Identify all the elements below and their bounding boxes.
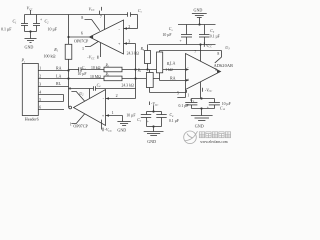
capacitor C6 0.1uF (top right right): [199, 25, 220, 45]
node Vcc port right: [204, 42, 212, 48]
wire RL feedback line: [69, 88, 94, 90]
pin 8 offset null U2: [69, 86, 84, 101]
pin 5 wire: [38, 95, 63, 102]
junction dot tap LA: [134, 77, 136, 79]
op-amp U2 OP07CP (left-pointing, bottom): [74, 90, 106, 126]
wire bottom cap row top: [192, 98, 215, 100]
pin 4 stem U1: [87, 43, 100, 61]
svg-text:GND: GND: [25, 45, 34, 50]
svg-text:LA: LA: [170, 60, 175, 65]
junction dot bus LA: [67, 77, 69, 79]
svg-text:OP07CP: OP07CP: [74, 39, 89, 44]
svg-text:10 µF: 10 µF: [126, 113, 135, 117]
pin 1 wire RA: [38, 66, 68, 71]
junction dot RG top leg: [146, 68, 148, 70]
wire feedback drop to pin2: [137, 15, 139, 29]
svg-text:10 µF: 10 µF: [163, 33, 172, 37]
svg-text:24.3 kΩ: 24.3 kΩ: [127, 52, 139, 56]
resistor R4 24.3k (upper RG, vertical): [127, 45, 151, 70]
wire pin2 input U1: [124, 24, 138, 30]
pin 8 offset null U1: [81, 15, 100, 31]
wire bus lower: [68, 59, 70, 107]
capacitor C10 10uF (below AD620 right): [207, 99, 231, 112]
svg-text:24.3 kΩ: 24.3 kΩ: [122, 84, 134, 88]
wire pin8 hook AD620: [160, 51, 222, 63]
capacitor C5 10uF (top right left): [163, 25, 193, 45]
svg-text:0.1 µF: 0.1 µF: [169, 119, 179, 123]
svg-text:OP07CP: OP07CP: [73, 124, 88, 129]
svg-text:8: 8: [69, 86, 71, 91]
svg-text:0.1 µF: 0.1 µF: [179, 104, 189, 108]
resistor R5 24.3k (lower RG, vertical): [122, 68, 154, 92]
svg-text:7: 7: [194, 50, 196, 54]
svg-text:1 kΩ: 1 kΩ: [165, 68, 173, 72]
watermark logo: [184, 131, 198, 144]
junction dot: [152, 125, 154, 127]
resistor R2 10k (horizontal): [91, 64, 122, 72]
svg-text:+: +: [40, 18, 42, 22]
svg-text:R2: R2: [105, 64, 110, 69]
wire mid cap row bottom: [147, 126, 162, 128]
svg-text:8: 8: [81, 15, 83, 20]
wire RG bottom to pin1 AD620: [150, 92, 187, 94]
wire LA jog to AD620 plus: [159, 79, 161, 81]
arrowhead plus input AD620: [186, 79, 190, 81]
capacitor C2: [33, 15, 58, 32]
junction dot tap RA: [134, 68, 136, 70]
svg-text:1: 1: [82, 46, 84, 51]
svg-text:RA: RA: [170, 75, 176, 80]
junction dot: [29, 30, 31, 32]
pin 6 output U1: [81, 31, 93, 39]
svg-text:GND: GND: [147, 139, 156, 144]
svg-text:5: 5: [177, 91, 179, 95]
pin 6 output AD620: [215, 68, 220, 73]
ground GND3 (top right, above caps): [192, 8, 207, 25]
capacitor C9 0.1uF (below AD620 left): [179, 98, 198, 108]
wire Vcc stem: [30, 10, 32, 15]
svg-text:RL: RL: [56, 81, 62, 86]
svg-text:2: 2: [39, 75, 41, 79]
ground GND1: [25, 39, 37, 50]
ground GND2 (under U2 plus input): [117, 122, 130, 133]
wire Vcc rail right: [149, 44, 216, 46]
wire pin2 input U2: [106, 93, 136, 100]
svg-text:3: 3: [39, 82, 41, 86]
wire to ground: [30, 32, 32, 39]
ground GND4 (bottom right): [191, 109, 213, 129]
node -Vcc port (bottom middle): [150, 101, 159, 111]
svg-text:www.elecfans.com: www.elecfans.com: [200, 140, 228, 144]
wire RA net: [69, 69, 79, 71]
pin 1 offset null U1: [82, 42, 98, 52]
node Vcc (top-left power label): [27, 6, 33, 12]
op-amp U1 OP07CP (left-pointing): [89, 20, 123, 54]
node Vcc (second power port, top middle): [89, 6, 102, 14]
pin 4 stem U2: [102, 120, 113, 133]
svg-text:10 µF: 10 µF: [48, 27, 58, 32]
svg-text:100 kΩ: 100 kΩ: [44, 53, 56, 58]
svg-text:GND: GND: [195, 124, 204, 129]
svg-text:3: 3: [128, 38, 130, 43]
wire bus upper: [68, 15, 70, 45]
svg-text:6: 6: [81, 31, 83, 36]
wire cap bottom: [25, 31, 37, 33]
svg-text:2: 2: [128, 24, 130, 29]
resistor R1 100k (vertical on bus): [44, 44, 72, 59]
junction dot: [200, 97, 202, 99]
wire LA net: [69, 78, 105, 80]
resistor R3 10M (horizontal): [90, 72, 122, 80]
pin 1 offset null U2: [70, 114, 85, 126]
capacitor C3 (series in RA line): [78, 66, 87, 76]
svg-text:10 µF: 10 µF: [222, 102, 231, 106]
svg-text:2: 2: [116, 93, 118, 98]
svg-text:LA: LA: [56, 73, 61, 78]
svg-text:0.1 µF: 0.1 µF: [210, 34, 220, 38]
capacitor C7 (series cap in feedback rail): [128, 9, 143, 17]
pin 7 stem AD620: [200, 45, 202, 62]
svg-text:0.1 µF: 0.1 µF: [1, 27, 12, 32]
svg-text:GND: GND: [194, 8, 203, 13]
wire mid cap row top: [147, 111, 162, 113]
wire output U1 to bus: [69, 36, 90, 38]
svg-text:1: 1: [187, 93, 189, 97]
svg-text:10 MΩ: 10 MΩ: [90, 75, 101, 79]
svg-text:1: 1: [70, 121, 72, 126]
wire tap vertical: [135, 44, 137, 99]
ground GND5 (bottom middle): [144, 127, 164, 145]
svg-text:8: 8: [217, 52, 219, 56]
svg-text:+: +: [147, 119, 149, 123]
svg-text:Header6: Header6: [25, 117, 39, 122]
svg-text:6: 6: [215, 68, 217, 72]
wire pin3 input U2: [106, 110, 123, 122]
junction dot bus RA: [67, 69, 69, 71]
wire top cap row: [178, 24, 216, 26]
output circle node U2: [69, 106, 72, 109]
svg-text:1: 1: [112, 110, 114, 115]
pin 4 wire: [38, 91, 63, 95]
wire RA to AD620 minus: [122, 69, 186, 71]
junction dot: [198, 23, 200, 25]
svg-text:+: +: [180, 39, 182, 43]
pin 2 wire LA: [38, 73, 68, 78]
svg-text:7: 7: [100, 14, 102, 19]
svg-text:RA: RA: [56, 66, 62, 71]
wire top rail: [25, 14, 128, 16]
capacitor C1: [1, 15, 28, 32]
junction dot: [200, 107, 202, 109]
op-amp U3 AD620AR (right-pointing): [186, 54, 234, 90]
connector P1 Header6: [21, 58, 39, 122]
pin 3 wire RL: [38, 81, 68, 86]
junction dot: [152, 110, 154, 112]
svg-text:10 µF: 10 µF: [78, 72, 87, 76]
junction dot output U1: [67, 36, 69, 38]
capacitor C4 (feedback): [94, 83, 102, 90]
capacitor C7b 10uF (bottom middle left): [126, 112, 151, 127]
pin 7 stem U2: [89, 89, 91, 99]
junction dot Vcc rail: [199, 43, 201, 45]
svg-text:GND: GND: [117, 128, 126, 133]
wire pin3 input U1: [124, 38, 136, 44]
watermark text: [199, 132, 230, 138]
wire pin7 stem U1: [104, 15, 106, 30]
capacitor C8 0.1uF (bottom middle right): [156, 112, 179, 127]
resistor R6 1k (tall, vertical): [157, 51, 173, 79]
pin 6 wire: [38, 106, 64, 110]
arrowhead minus input AD620: [186, 68, 190, 70]
wire bottom cap row bottom: [192, 108, 215, 110]
pin 4 stem AD620: [201, 82, 213, 99]
svg-text:R4: R4: [140, 47, 145, 52]
svg-text:10 kΩ: 10 kΩ: [91, 66, 101, 70]
pin 5 AD620: [177, 90, 186, 98]
